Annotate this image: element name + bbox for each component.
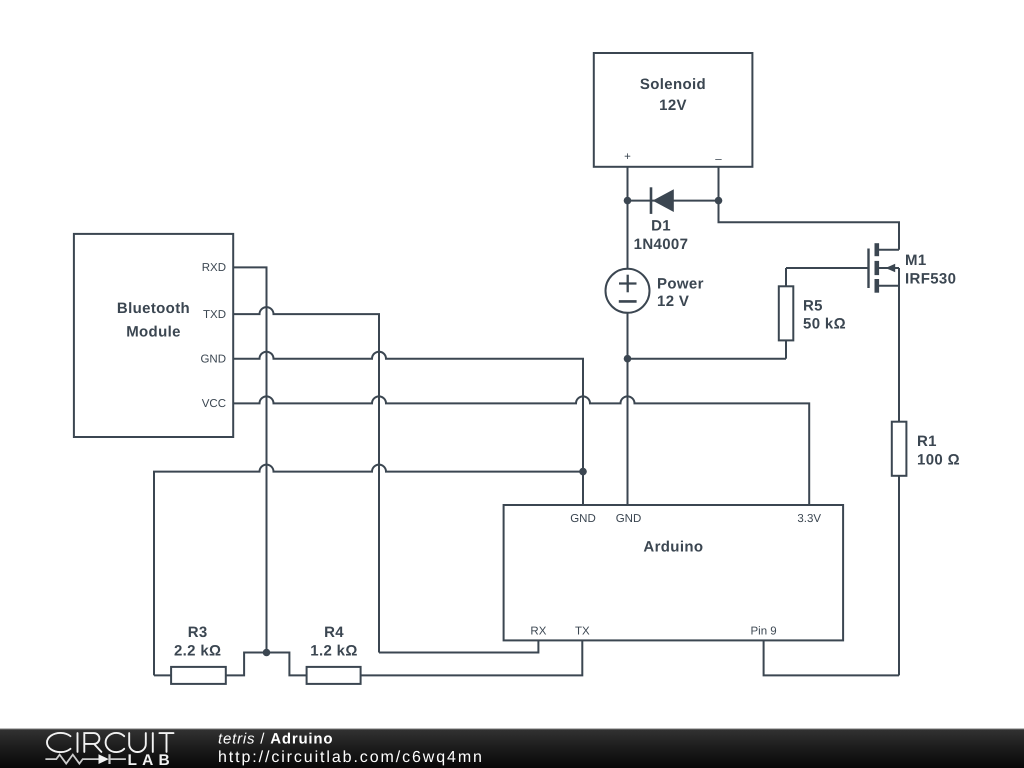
svg-text:1.2 kΩ: 1.2 kΩ bbox=[310, 643, 358, 660]
transistor M1 mosfet bbox=[869, 243, 900, 293]
svg-text:M1: M1 bbox=[905, 252, 927, 269]
svg-text:12 V: 12 V bbox=[657, 293, 689, 310]
wire solenoid - down bbox=[718, 167, 720, 201]
svg-text:Power: Power bbox=[657, 276, 704, 293]
wire arduino pin9 to R1 bbox=[764, 640, 899, 675]
svg-text:tetris / Adruino: tetris / Adruino bbox=[218, 731, 333, 748]
svg-text:IRF530: IRF530 bbox=[905, 271, 956, 288]
svg-text:Solenoid: Solenoid bbox=[640, 76, 706, 93]
wire gate to R5 bbox=[786, 267, 869, 269]
wire TXD with hop bbox=[233, 307, 379, 652]
wire solenoid + down bbox=[627, 167, 629, 201]
wire RXD bbox=[233, 267, 266, 652]
node diode anode junction bbox=[624, 197, 632, 205]
svg-text:3.3V: 3.3V bbox=[797, 513, 821, 525]
wire diode horizontal bbox=[628, 200, 719, 202]
node R5 power junction bbox=[624, 355, 632, 363]
svg-text:1N4007: 1N4007 bbox=[634, 236, 689, 253]
svg-text:http://circuitlab.com/c6wq4mn: http://circuitlab.com/c6wq4mn bbox=[218, 749, 484, 766]
wire R3 to GND with hops bbox=[154, 465, 583, 676]
resistor R4 bbox=[307, 640, 583, 684]
svg-text:VCC: VCC bbox=[202, 398, 226, 410]
svg-text:2.2 kΩ: 2.2 kΩ bbox=[174, 643, 222, 660]
wire arduino RX to TXD bbox=[379, 640, 538, 652]
wire power minus down to arduino GND bbox=[627, 313, 629, 505]
svg-text:GND: GND bbox=[570, 513, 596, 525]
svg-text:+: + bbox=[624, 151, 631, 163]
solenoid box bbox=[594, 53, 753, 167]
wire VCC with hops bbox=[233, 396, 809, 505]
wire solenoid - to mosfet drain bbox=[719, 201, 900, 250]
bluetooth module box bbox=[74, 234, 233, 437]
wire GND with hops bbox=[233, 352, 583, 505]
svg-text:–: – bbox=[715, 154, 722, 166]
resistor R1 bbox=[892, 422, 907, 676]
svg-text:TXD: TXD bbox=[203, 309, 226, 321]
svg-text:RX: RX bbox=[530, 626, 546, 638]
svg-text:12V: 12V bbox=[659, 97, 687, 114]
svg-text:R5: R5 bbox=[803, 298, 823, 315]
node GND junction bbox=[579, 468, 587, 476]
svg-text:GND: GND bbox=[200, 353, 226, 365]
diode D1 bbox=[651, 187, 674, 214]
svg-text:R1: R1 bbox=[917, 433, 937, 450]
svg-text:50 kΩ: 50 kΩ bbox=[803, 316, 846, 333]
logo resistor and diode glyph bbox=[45, 754, 126, 764]
svg-text:Module: Module bbox=[126, 324, 181, 341]
arduino box bbox=[504, 505, 843, 640]
svg-text:RXD: RXD bbox=[202, 262, 226, 274]
wire R5 bottom to power net bbox=[628, 358, 787, 360]
resistor R5 bbox=[779, 268, 794, 359]
node RXD divider junction bbox=[263, 649, 271, 657]
svg-text:100 Ω: 100 Ω bbox=[917, 452, 960, 469]
circuitlab logo bbox=[47, 733, 174, 752]
svg-text:LAB: LAB bbox=[128, 752, 175, 768]
svg-text:Pin 9: Pin 9 bbox=[750, 626, 776, 638]
svg-text:Bluetooth: Bluetooth bbox=[117, 300, 190, 317]
svg-text:TX: TX bbox=[575, 626, 590, 638]
svg-text:Arduino: Arduino bbox=[643, 539, 703, 556]
power source V1 bbox=[606, 201, 650, 313]
footer bar bbox=[0, 729, 1024, 768]
svg-text:R3: R3 bbox=[188, 624, 208, 641]
wire mosfet source down bbox=[898, 268, 900, 422]
node diode cathode junction bbox=[715, 197, 723, 205]
svg-text:D1: D1 bbox=[651, 218, 671, 235]
resistor R3 bbox=[154, 653, 307, 684]
svg-text:R4: R4 bbox=[324, 624, 344, 641]
svg-text:GND: GND bbox=[616, 513, 642, 525]
